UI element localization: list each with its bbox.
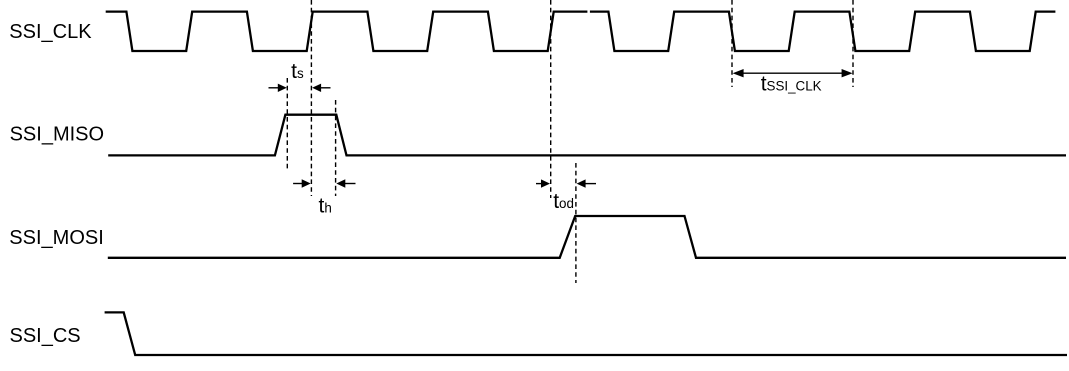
arrow tSSI_CLK double-headed bbox=[733, 69, 853, 77]
arrow ts left bbox=[269, 84, 287, 92]
dashed guide at clock rising edge (ts/th reference) x=311 bbox=[310, 0, 312, 196]
svg-text:SSI_MOSI: SSI_MOSI bbox=[9, 227, 103, 249]
dashed guide at MOSI output-valid x=576 bbox=[575, 163, 577, 283]
arrow ts right bbox=[312, 84, 330, 92]
svg-text:SSI_CLK: SSI_CLK bbox=[9, 21, 92, 43]
waveform SSI_CS bbox=[105, 312, 1067, 355]
arrow tod right bbox=[577, 179, 596, 187]
dashed guide at clock falling edge (tSSI_CLK left) x=732 bbox=[731, 0, 733, 87]
waveform SSI_CLK bbox=[106, 12, 1056, 51]
svg-text:SSI_CS: SSI_CS bbox=[10, 325, 81, 347]
arrow th left bbox=[293, 179, 311, 187]
dashed guide at MISO data-end x=336 bbox=[335, 100, 337, 196]
svg-text:SSI_MISO: SSI_MISO bbox=[10, 124, 104, 146]
dashed guide at clock falling edge (tSSI_CLK right) x=853 bbox=[852, 0, 854, 87]
dashed guide at MISO data-valid x=287 bbox=[286, 78, 288, 170]
arrow tod left bbox=[536, 179, 550, 187]
waveform SSI_MOSI bbox=[108, 216, 1066, 258]
dashed guide at clock rising edge (tod reference) x=551 bbox=[550, 0, 552, 198]
waveform SSI_MISO bbox=[108, 115, 1066, 156]
arrow th right bbox=[336, 179, 355, 187]
